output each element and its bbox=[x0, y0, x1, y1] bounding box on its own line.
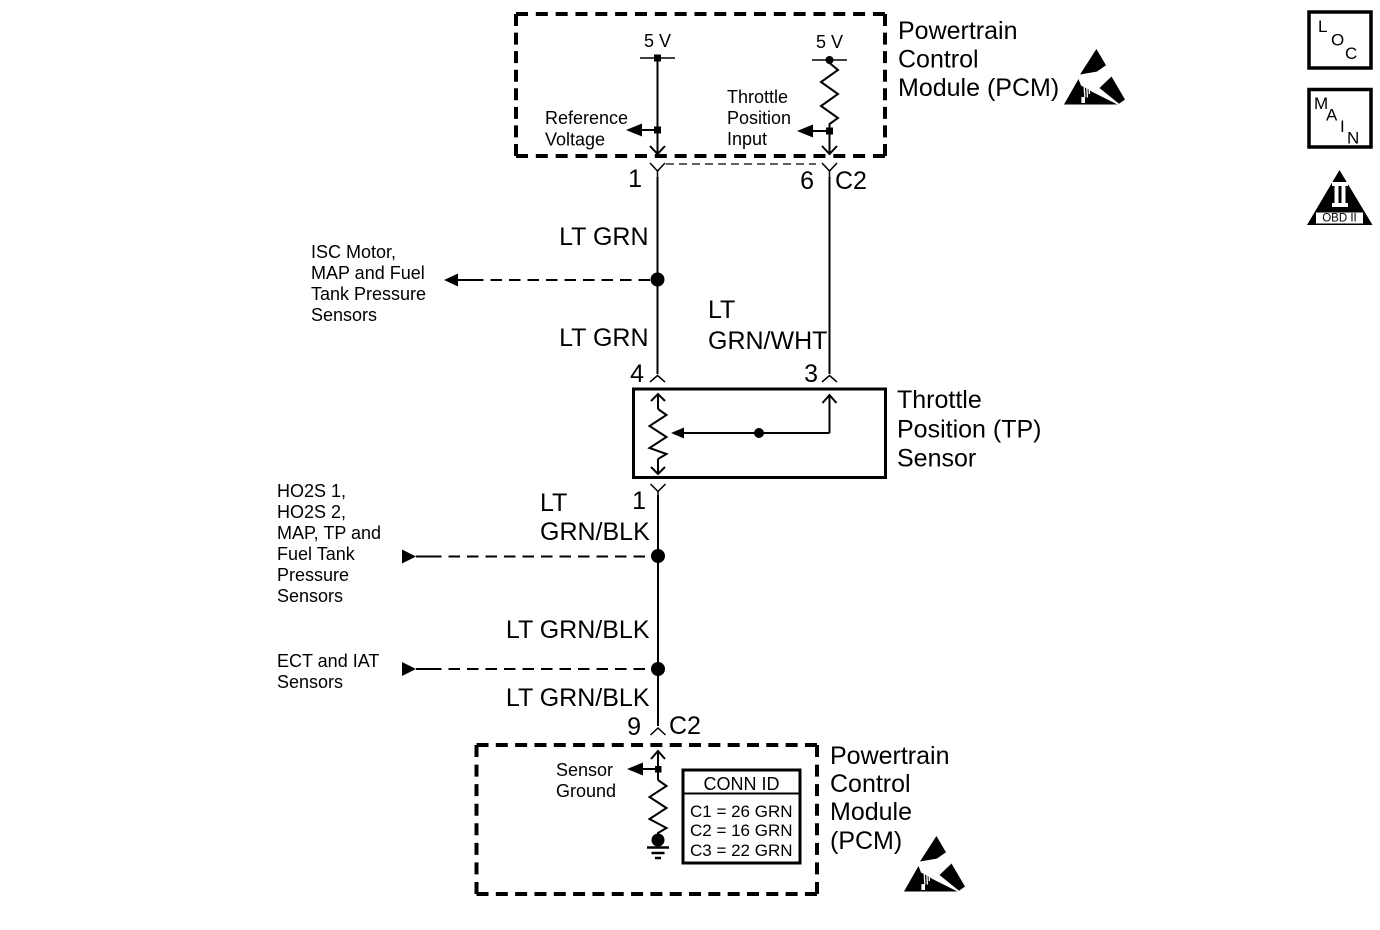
svg-text:HO2S 1,: HO2S 1, bbox=[277, 481, 346, 501]
svg-text:Input: Input bbox=[727, 129, 767, 149]
LOC reference icon bbox=[1309, 12, 1371, 68]
svg-text:Sensors: Sensors bbox=[277, 672, 343, 692]
svg-text:Tank Pressure: Tank Pressure bbox=[311, 284, 426, 304]
junction: 5V reference splice bbox=[651, 273, 665, 287]
svg-text:Module: Module bbox=[830, 798, 912, 826]
svg-text:3: 3 bbox=[804, 360, 818, 388]
ESD symbol (top PCM) bbox=[1064, 49, 1125, 105]
svg-text:GRN/BLK: GRN/BLK bbox=[540, 518, 650, 546]
svg-text:Throttle: Throttle bbox=[727, 87, 788, 107]
svg-text:1: 1 bbox=[632, 487, 646, 515]
svg-text:A: A bbox=[1326, 106, 1338, 125]
svg-text:4: 4 bbox=[630, 360, 644, 388]
svg-text:Throttle: Throttle bbox=[897, 386, 982, 414]
svg-text:ISC Motor,: ISC Motor, bbox=[311, 242, 396, 262]
svg-text:Module (PCM): Module (PCM) bbox=[898, 74, 1059, 102]
wire: pin 9 into sensor ground bbox=[651, 751, 665, 780]
potentiometer wiper arm bbox=[671, 428, 830, 439]
svg-text:LT GRN/BLK: LT GRN/BLK bbox=[506, 684, 650, 712]
svg-text:LT GRN: LT GRN bbox=[559, 223, 648, 251]
svg-text:5 V: 5 V bbox=[816, 32, 843, 52]
svg-text:LT GRN: LT GRN bbox=[559, 324, 648, 352]
svg-text:C2: C2 bbox=[669, 712, 701, 740]
label: Powertrain Control Module (PCM) top bbox=[898, 17, 1059, 102]
connector pin 6 C2 bbox=[822, 163, 837, 177]
junction: sensor ground tap bbox=[655, 766, 662, 773]
svg-text:LT: LT bbox=[708, 296, 735, 324]
svg-text:Voltage: Voltage bbox=[545, 130, 605, 150]
junction: sensor ground splice 2 bbox=[651, 662, 665, 676]
Throttle Position (TP) Sensor box bbox=[634, 389, 886, 478]
svg-text:GRN/WHT: GRN/WHT bbox=[708, 327, 827, 355]
connector pin 9 C2 bbox=[651, 728, 666, 735]
ESD symbol (bottom PCM) bbox=[904, 836, 965, 892]
svg-text:C3 = 22 GRN: C3 = 22 GRN bbox=[690, 841, 793, 860]
svg-text:ECT and IAT: ECT and IAT bbox=[277, 651, 379, 671]
connector pin 1 (TP sensor) bbox=[651, 484, 666, 495]
svg-text:Position: Position bbox=[727, 108, 791, 128]
svg-text:L: L bbox=[1318, 17, 1327, 36]
connector pin 1 C2 bbox=[650, 163, 665, 177]
svg-text:Sensors: Sensors bbox=[311, 305, 377, 325]
svg-text:OBD II: OBD II bbox=[1322, 213, 1357, 225]
CONN ID table bbox=[683, 770, 800, 863]
svg-text:CONN ID: CONN ID bbox=[704, 774, 780, 794]
svg-text:(PCM): (PCM) bbox=[830, 827, 902, 855]
svg-text:Pressure: Pressure bbox=[277, 565, 349, 585]
junction: throttle position input tap bbox=[826, 128, 833, 135]
arrow to Sensor Ground label bbox=[627, 763, 658, 776]
svg-text:Powertrain: Powertrain bbox=[898, 17, 1018, 45]
svg-text:C2: C2 bbox=[835, 167, 867, 195]
ground symbol bbox=[647, 848, 669, 859]
svg-text:Fuel Tank: Fuel Tank bbox=[277, 544, 356, 564]
svg-text:I: I bbox=[1340, 117, 1345, 136]
MAIN reference icon bbox=[1309, 90, 1371, 148]
PCM module box (bottom) bbox=[477, 745, 818, 894]
svg-text:1: 1 bbox=[628, 165, 642, 193]
wire: 5V to reference voltage output bbox=[650, 58, 665, 154]
potentiometer: TP sensor element bbox=[650, 394, 667, 474]
label: Throttle Position (TP) Sensor bbox=[897, 386, 1041, 473]
label: Powertrain Control Module (PCM) bottom bbox=[830, 742, 950, 855]
wire: pin 3 riser inside TP sensor bbox=[823, 395, 837, 433]
resistor: sensor ground bbox=[650, 780, 667, 840]
resistor: TP input pull-up bbox=[821, 60, 838, 131]
svg-text:Control: Control bbox=[830, 770, 911, 798]
svg-text:Sensor: Sensor bbox=[556, 760, 613, 780]
svg-text:Position (TP): Position (TP) bbox=[897, 416, 1041, 444]
svg-text:MAP, TP and: MAP, TP and bbox=[277, 523, 381, 543]
svg-text:HO2S 2,: HO2S 2, bbox=[277, 502, 346, 522]
svg-text:O: O bbox=[1331, 31, 1344, 50]
svg-text:6: 6 bbox=[800, 167, 814, 195]
svg-text:N: N bbox=[1347, 129, 1359, 148]
svg-text:9: 9 bbox=[627, 713, 641, 741]
dashed branch to ISC Motor / MAP / Fuel Tank Pressure sensors bbox=[444, 274, 650, 287]
label: ISC Motor, MAP and Fuel Tank Pressure Sensors bbox=[311, 242, 426, 325]
svg-text:LT GRN/BLK: LT GRN/BLK bbox=[506, 616, 650, 644]
wire: pin 6 to TP sensor pin 3 (LT GRN/WHT) bbox=[829, 177, 831, 374]
wire: pin 1 to TP sensor pin 4 (LT GRN) bbox=[657, 177, 659, 374]
svg-text:Powertrain: Powertrain bbox=[830, 742, 950, 770]
junction: sensor ground splice 1 bbox=[651, 549, 665, 563]
dashed branch to HO2S/MAP/TP/Fuel Tank Pressure sensors bbox=[402, 550, 650, 564]
dashed branch to ECT and IAT sensors bbox=[402, 662, 650, 676]
PCM module box (top) bbox=[516, 14, 885, 156]
svg-text:LT: LT bbox=[540, 489, 567, 517]
label: Throttle Position Input bbox=[727, 87, 791, 149]
wire label LT GRN/BLK (upper) bbox=[540, 489, 650, 546]
svg-text:5 V: 5 V bbox=[644, 31, 671, 51]
5V supply (TP input pull-up) bbox=[812, 32, 847, 64]
junction: reference voltage tap bbox=[654, 127, 661, 134]
connector C2 dashed tie line bbox=[666, 163, 816, 165]
label: Reference Voltage bbox=[545, 108, 628, 150]
connector pin 3 (TP sensor) bbox=[822, 376, 837, 383]
svg-text:C2 = 16 GRN: C2 = 16 GRN bbox=[690, 821, 793, 840]
5V supply (reference voltage) bbox=[640, 31, 675, 62]
svg-text:Control: Control bbox=[898, 46, 979, 74]
svg-text:Sensor: Sensor bbox=[897, 445, 976, 473]
OBD II icon bbox=[1307, 170, 1373, 225]
wire: TP input to pin 6 bbox=[822, 131, 837, 154]
svg-text:C1 = 26 GRN: C1 = 26 GRN bbox=[690, 802, 793, 821]
label: Sensor Ground bbox=[556, 760, 616, 801]
label: HO2S 1, HO2S 2, MAP, TP and Fuel Tank Pressure Sensors bbox=[277, 481, 381, 606]
wire label LT GRN/WHT bbox=[708, 296, 827, 355]
svg-text:Reference: Reference bbox=[545, 108, 628, 128]
svg-text:C: C bbox=[1345, 44, 1357, 63]
arrow to Reference Voltage label bbox=[626, 124, 658, 137]
label: ECT and IAT Sensors bbox=[277, 651, 379, 692]
connector pin 4 (TP sensor) bbox=[650, 376, 665, 383]
svg-text:Ground: Ground bbox=[556, 781, 616, 801]
wire: TP sensor pin 1 to PCM pin 9 (LT GRN/BLK) bbox=[657, 495, 659, 726]
arrow to Throttle Position Input label bbox=[797, 125, 830, 138]
svg-text:MAP and Fuel: MAP and Fuel bbox=[311, 263, 425, 283]
svg-text:Sensors: Sensors bbox=[277, 586, 343, 606]
junction: ground node bbox=[652, 834, 665, 847]
